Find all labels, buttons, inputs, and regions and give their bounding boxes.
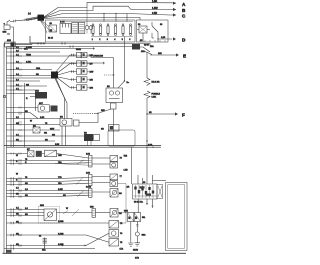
wire crossover marks — [63, 160, 84, 216]
fuse 6 — [129, 24, 131, 41]
fuse 1 — [92, 24, 94, 41]
mid vertical bus 2 — [35, 90, 37, 111]
svg-text:53: 53 — [143, 182, 146, 184]
svg-text:W: W — [66, 208, 68, 210]
bus line lower long — [7, 46, 135, 48]
riser diagonal to distribution — [97, 109, 111, 123]
bus line upper long — [4, 43, 150, 45]
svg-text:USA: USA — [36, 67, 41, 70]
jog wire — [7, 111, 39, 118]
svg-text:B/R: B/R — [90, 55, 94, 57]
striped module 1 — [72, 23, 78, 34]
svg-text:14/9: 14/9 — [86, 173, 91, 175]
pump motor box — [60, 117, 98, 127]
row tick pairs x19 — [19, 47, 21, 142]
row lamp 5 — [7, 221, 119, 229]
svg-text:30: 30 — [138, 24, 141, 26]
cluster 4 link — [57, 213, 93, 216]
drop from fuse row to alternator — [118, 37, 130, 89]
left bus vertical 1 — [3, 44, 5, 254]
svg-text:B/R: B/R — [90, 80, 94, 82]
svg-text:14: 14 — [28, 13, 31, 16]
component 6/2 — [84, 133, 100, 142]
svg-text:4/5: 4/5 — [127, 187, 131, 189]
relay coil circles — [85, 8, 93, 34]
svg-text:30: 30 — [50, 23, 53, 25]
svg-text:20A: 20A — [150, 45, 154, 48]
svg-text:17A: 17A — [120, 248, 124, 251]
svg-text:B/W: B/W — [90, 72, 94, 74]
branch rows upper — [7, 47, 106, 141]
svg-text:9/3: 9/3 — [101, 129, 105, 131]
svg-text:1: 1 — [92, 39, 94, 41]
svg-text:C: C — [182, 14, 186, 19]
svg-text:B: B — [182, 8, 186, 13]
svg-text:5: 5 — [122, 39, 124, 41]
long feed pair — [4, 146, 161, 148]
ignition coil — [39, 236, 47, 249]
connector hub splice — [38, 15, 45, 21]
svg-text:H4: H4 — [119, 213, 122, 215]
svg-text:86: 86 — [160, 24, 163, 26]
svg-text:LINK: LINK — [152, 97, 157, 99]
svg-text:B/G: B/G — [90, 88, 94, 90]
left bus vertical 2 — [6, 47, 8, 254]
svg-text:9/3: 9/3 — [60, 117, 64, 119]
svg-text:R: R — [26, 98, 28, 100]
svg-text:GR: GR — [44, 133, 48, 135]
striped module 2 — [79, 23, 85, 34]
fusible link 1 — [144, 78, 160, 86]
cluster 4 rows — [7, 208, 45, 217]
svg-text:B/Y: B/Y — [90, 64, 94, 66]
svg-text:1.5SB: 1.5SB — [58, 244, 64, 246]
svg-text:31: 31 — [39, 236, 42, 238]
alternator box — [106, 86, 123, 113]
fuse 5 — [122, 24, 124, 41]
svg-text:1.5W: 1.5W — [152, 7, 158, 10]
switch to E — [140, 47, 152, 55]
wire B to right arrow — [44, 6, 176, 17]
wire A to right arrow — [44, 0, 176, 17]
svg-text:77: 77 — [120, 176, 123, 178]
switch row 4 — [70, 77, 93, 82]
fuse block connector — [60, 22, 71, 34]
svg-text:31/51: 31/51 — [76, 49, 82, 51]
connector ticks on bus — [24, 42, 82, 51]
cluster 2 lamp pair — [92, 174, 123, 187]
starter unit — [7, 103, 58, 112]
ground stub left — [128, 222, 133, 247]
ignition feed box — [132, 44, 150, 50]
fuse bottom rail — [91, 36, 133, 38]
svg-text:53B: 53B — [90, 207, 94, 209]
connector strip vertical B — [13, 43, 15, 148]
cluster 1 lamp pair — [92, 156, 123, 169]
svg-text:15A: 15A — [42, 249, 46, 252]
splice ring on bus — [3, 95, 5, 97]
svg-text:W: W — [16, 173, 18, 175]
svg-text:H4: H4 — [119, 193, 122, 195]
fusebox outer border — [30, 20, 135, 43]
ground point G8A — [135, 222, 146, 237]
headlamp switch unit — [127, 175, 167, 204]
svg-text:8/7: 8/7 — [27, 149, 31, 151]
svg-text:4: 4 — [114, 39, 116, 41]
cluster 1 rows — [7, 159, 89, 165]
switch row 1 — [70, 52, 93, 57]
mid vertical bus 1 — [24, 83, 26, 147]
svg-text:14/8: 14/8 — [86, 154, 91, 156]
bottom feed row 2 — [4, 245, 95, 250]
feed vertical lower — [146, 98, 148, 184]
svg-text:6R: 6R — [149, 112, 152, 114]
svg-text:2.5R: 2.5R — [55, 144, 60, 146]
hub drop wires to fusebox — [41, 21, 49, 33]
ignition module — [30, 91, 47, 99]
branch junction pins — [10, 48, 14, 91]
battery — [3, 20, 11, 35]
svg-text:E: E — [183, 54, 186, 59]
fuse 4 — [114, 24, 116, 41]
svg-text:1 3 5: 1 3 5 — [60, 22, 65, 24]
svg-text:F: F — [182, 113, 185, 118]
ground symbol — [133, 236, 140, 260]
cluster 1 connector comb — [86, 154, 92, 168]
fusible link 2 — [144, 91, 161, 99]
mid component on riser — [101, 125, 119, 132]
small relay mid left — [33, 127, 60, 133]
svg-text:1.5BL: 1.5BL — [26, 61, 32, 63]
svg-text:1.5R: 1.5R — [40, 117, 45, 119]
svg-text:W: W — [16, 155, 18, 157]
mid-span wire labels — [40, 117, 68, 246]
svg-text:30 87: 30 87 — [144, 45, 150, 47]
svg-text:6/1: 6/1 — [107, 86, 111, 88]
svg-text:B+: B+ — [127, 82, 130, 84]
svg-text:74: 74 — [120, 233, 123, 235]
switch row 3 — [70, 69, 93, 74]
svg-text:75: 75 — [120, 223, 123, 225]
svg-text:75: 75 — [120, 242, 123, 244]
bottom frame line — [3, 252, 187, 254]
svg-text:85: 85 — [140, 40, 143, 42]
svg-text:58L: 58L — [142, 217, 146, 219]
relay K1 box — [137, 20, 169, 47]
svg-text:58 31 56a: 58 31 56a — [134, 202, 144, 204]
cluster 2 connector comb — [86, 173, 92, 186]
riser to pair — [62, 126, 66, 146]
svg-text:FUSIBLE: FUSIBLE — [152, 94, 161, 96]
wire code speck labels — [16, 45, 154, 246]
junction node — [146, 140, 147, 141]
fuse 3 — [107, 24, 109, 41]
fuse feed rail — [60, 21, 133, 23]
svg-text:6: 6 — [129, 39, 131, 41]
dashed link mid — [73, 112, 95, 114]
usa/cdn link — [91, 55, 114, 76]
connector strip vertical A — [10, 47, 12, 147]
svg-text:A: A — [182, 2, 186, 7]
svg-text:W: W — [30, 120, 32, 122]
svg-text:G8A: G8A — [142, 234, 147, 237]
splice fan node — [51, 72, 58, 79]
svg-text:SB: SB — [63, 195, 66, 197]
svg-text:31/56: 31/56 — [133, 250, 139, 252]
cluster 3 rows — [7, 189, 89, 198]
svg-text:75B: 75B — [124, 156, 128, 158]
svg-text:18R: 18R — [101, 110, 105, 112]
mid distribution vertical — [113, 58, 115, 89]
svg-text:3: 3 — [107, 39, 109, 41]
row lamp 6 crossover — [7, 230, 119, 243]
svg-text:1.5SB: 1.5SB — [58, 221, 64, 223]
fuse 2 — [99, 24, 101, 41]
svg-text:76B: 76B — [58, 155, 62, 157]
svg-text:1.5R: 1.5R — [152, 0, 157, 3]
switch row 2 — [70, 61, 93, 66]
svg-text:76: 76 — [120, 158, 123, 160]
svg-text:R: R — [16, 179, 18, 181]
svg-text:R: R — [16, 161, 18, 163]
svg-text:8/18: 8/18 — [40, 205, 45, 207]
svg-text:1.5B: 1.5B — [124, 170, 129, 172]
svg-text:75SB: 75SB — [26, 54, 32, 56]
row lamp 7 crossover — [7, 233, 124, 250]
svg-text:1.5SB: 1.5SB — [58, 233, 64, 235]
svg-text:1.5: 1.5 — [16, 187, 20, 189]
wire code labels — [26, 47, 48, 135]
svg-text:8.5R: 8.5R — [148, 145, 153, 147]
svg-text:53/5: 53/5 — [124, 211, 129, 213]
wire junction box to bus — [15, 44, 32, 46]
cluster 4 connector comb — [90, 207, 96, 218]
svg-text:1.5GR: 1.5GR — [26, 47, 32, 49]
wire E arrow — [141, 50, 179, 57]
svg-text:11 13: 11 13 — [48, 38, 54, 40]
fan wires to switch column — [55, 55, 70, 119]
svg-text:USA/CDN: USA/CDN — [94, 55, 104, 58]
svg-text:2.5R: 2.5R — [152, 12, 157, 15]
svg-text:14/10: 14/10 — [86, 187, 92, 189]
main feed vertical — [146, 52, 148, 78]
wire fan to fuse drops — [44, 13, 140, 22]
svg-text:KN-1 BR: KN-1 BR — [152, 82, 160, 84]
svg-text:2: 2 — [99, 39, 101, 41]
junction box 6/28 — [5, 40, 16, 47]
svg-text:1.5R: 1.5R — [161, 37, 166, 39]
cluster 4 headlamp — [96, 209, 119, 218]
cluster 2 rows — [7, 177, 89, 186]
lamp relay trio row — [7, 149, 89, 158]
foglamp dashed unit — [39, 205, 60, 223]
wire C to right arrow — [44, 12, 176, 18]
riser right bottom — [131, 147, 133, 184]
svg-text:16R: 16R — [158, 53, 162, 55]
wire F arrow — [146, 112, 178, 115]
svg-text:17/8: 17/8 — [135, 258, 140, 260]
cluster 3 headlamp — [92, 189, 118, 198]
comp to pair stubs — [88, 141, 92, 146]
battery wire bundle — [10, 13, 38, 23]
svg-text:18W: 18W — [50, 129, 54, 131]
wire D arrow — [152, 37, 176, 40]
fusebox pin row connector — [48, 23, 57, 40]
svg-text:D: D — [182, 38, 186, 43]
svg-text:6/28: 6/28 — [7, 40, 12, 42]
connector below switch — [124, 199, 154, 222]
lamp link vertical — [118, 184, 127, 224]
wire battery to junction box — [10, 27, 14, 43]
svg-text:6/25: 6/25 — [3, 32, 8, 34]
right pillar box — [166, 183, 188, 251]
cluster 3 connector comb — [86, 187, 92, 198]
module outline box — [108, 130, 135, 146]
switch row 5 — [70, 85, 93, 90]
svg-text:1.5W: 1.5W — [58, 189, 63, 191]
